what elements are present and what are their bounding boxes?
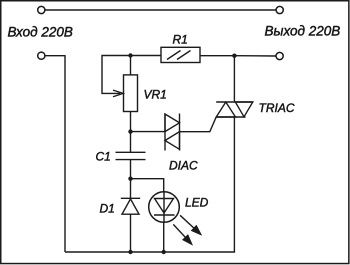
wire R1 to node B	[200, 55, 234, 57]
output terminal bottom	[276, 52, 283, 59]
svg-text:Вход 220В: Вход 220В	[8, 25, 73, 40]
wire C1 bottom lead	[130, 160, 132, 179]
svg-text:LED: LED	[185, 196, 209, 210]
wire node to R1	[131, 55, 162, 57]
svg-text:R1: R1	[173, 33, 188, 47]
node B junction R1/triac/output	[232, 54, 236, 58]
wire node B to output terminal	[234, 55, 275, 57]
svg-text:Выход 220В: Выход 220В	[265, 24, 341, 39]
node C junction VR1/C1/diac	[128, 129, 132, 133]
wire bottom rail	[65, 251, 235, 253]
wire node D to LED branch	[131, 179, 164, 192]
svg-text:D1: D1	[100, 202, 115, 216]
wire DIAC to gate	[180, 117, 217, 132]
output terminal top	[276, 6, 283, 13]
diac DIAC	[165, 114, 180, 151]
svg-text:DIAC: DIAC	[169, 159, 198, 173]
LED light arrow 1	[180, 215, 201, 234]
LED diode symbol	[154, 192, 175, 223]
LED light arrow 2	[173, 224, 191, 244]
wire top rail	[45, 9, 276, 11]
wire wiper feed	[102, 56, 131, 94]
diode D1	[121, 198, 140, 214]
wire VR1 bottom lead	[130, 112, 132, 132]
LED circle	[149, 192, 180, 223]
wire triac cathode down	[233, 117, 235, 252]
wire VR1 top lead	[130, 56, 132, 76]
wire node C to DIAC	[131, 131, 166, 133]
potentiometer VR1	[124, 75, 138, 112]
node E junction D1/bottom rail	[128, 250, 132, 254]
node D junction C1/D1/LED	[128, 177, 132, 181]
node F junction LED/bottom rail	[162, 250, 166, 254]
wire LED bottom lead	[163, 222, 165, 252]
node A junction R1/VR1/wiper	[128, 53, 132, 57]
resistor R1	[161, 47, 200, 62]
wire D1 top lead	[130, 179, 132, 199]
wire D1 bottom lead	[130, 214, 132, 252]
capacitor C1	[116, 152, 146, 159]
wire input stub to left rail	[45, 56, 65, 252]
input terminal bottom	[38, 52, 45, 59]
triac TRIAC	[216, 102, 253, 117]
wiper arrowhead	[113, 90, 123, 97]
wire triac anode up	[233, 56, 235, 102]
wire C1 top lead	[130, 132, 132, 152]
svg-text:C1: C1	[96, 150, 111, 164]
svg-text:TRIAC: TRIAC	[259, 101, 295, 115]
svg-text:VR1: VR1	[144, 88, 167, 102]
input terminal top	[38, 6, 45, 13]
